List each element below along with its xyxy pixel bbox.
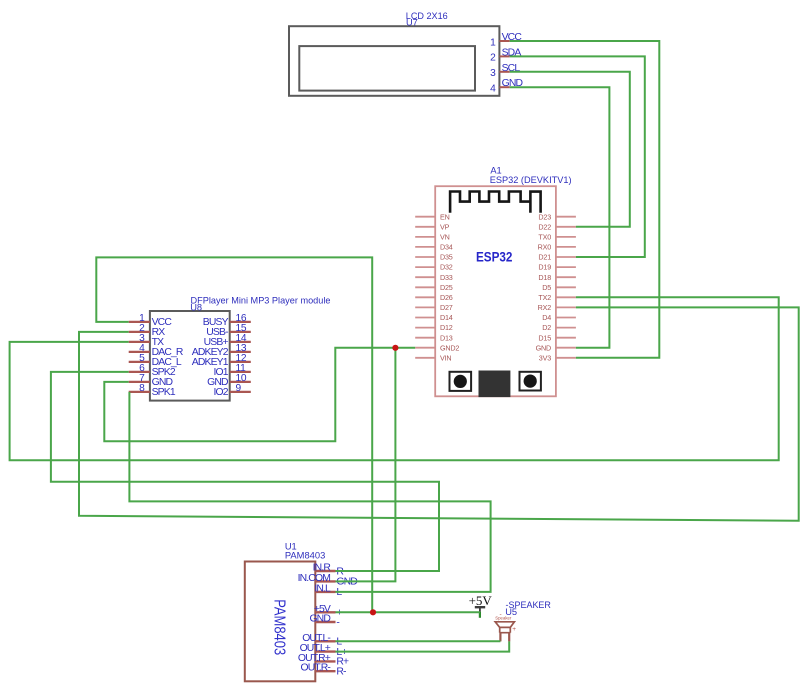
speaker U5 [495,600,551,642]
ESP32 right pin D19 [538,263,575,272]
svg-text:D12: D12 [440,323,453,332]
PAM8403 pin OUT.L- [302,633,344,648]
wire DFPlayer VCC to +5V net [96,257,372,612]
ESP32 left pin D12 [415,323,453,332]
svg-text:U7: U7 [406,18,418,28]
DFPlayer pin 6 SPK2 [129,363,176,378]
svg-text:DFPlayer Mini MP3 Player modul: DFPlayer Mini MP3 Player module [191,295,331,305]
DFPlayer pin 10 GND [207,373,251,388]
svg-text:Speaker: Speaker [495,616,512,621]
ESP32 right pin TX0 [538,233,575,242]
DFPlayer pin 7 GND [129,373,173,388]
DFPlayer pin 2 RX [129,323,166,338]
svg-text:VP: VP [440,222,450,231]
svg-text:PAM8403: PAM8403 [271,599,288,655]
svg-text:GND2: GND2 [440,343,459,352]
wire PAM +5V to +5V symbol [336,611,480,613]
PAM8403 pin IN.COM [298,573,358,588]
ESP32 left pin D34 [415,243,453,252]
svg-text:D21: D21 [538,253,551,262]
svg-text:9: 9 [236,383,242,394]
PAM8403 pin IN.L [314,583,342,598]
ESP32 left pin D26 [415,293,453,302]
svg-text:D26: D26 [440,293,453,302]
wire LCD SCL to ESP32 D22 [510,72,630,227]
svg-text:D5: D5 [542,283,551,292]
wire PAM OUT.L+ to speaker [336,641,510,651]
DFPlayer pin 3 TX [129,333,164,348]
svg-text:-: - [500,611,502,618]
wire LCD VCC to ESP32 3V3 [510,41,660,358]
svg-text:D33: D33 [440,273,453,282]
svg-text:D34: D34 [440,243,453,252]
PAM8403 pin OUT.R+ [298,653,349,668]
PAM8403 pin IN.R [313,563,345,578]
ESP32 right pin D15 [538,333,575,342]
ESP32 module A1 [435,166,571,397]
svg-text:TX0: TX0 [538,233,551,242]
ESP32 antenna [450,192,540,213]
svg-text:D19: D19 [538,263,551,272]
ESP32 USB connector [479,371,511,398]
svg-text:D2: D2 [542,323,551,332]
ESP32 left pin VN [415,233,449,242]
svg-text:D14: D14 [440,313,453,322]
ESP32 left pin D33 [415,273,453,282]
svg-text:D23: D23 [538,212,551,221]
svg-text:D27: D27 [440,303,453,312]
PAM8403 pin GND [309,614,339,629]
svg-text:RX0: RX0 [538,243,552,252]
ESP32 left pin EN [415,212,449,221]
svg-text:TX2: TX2 [538,293,551,302]
ESP32 right pin D4 [542,313,576,322]
svg-text:SPK1: SPK1 [152,387,176,398]
ESP32 left pin D25 [415,283,453,292]
wire ESP32 RX2 to DFPlayer RX [79,307,799,520]
ESP32 left pin D32 [415,263,453,272]
DFPlayer pin 5 DAC_L [129,353,182,368]
wire LCD GND to ESP32 GND [510,87,610,348]
ESP32 left pin VP [415,222,449,231]
svg-text:D32: D32 [440,263,453,272]
ESP32 left pin D27 [415,303,453,312]
ESP32 right pin 3V3 [539,353,576,362]
ESP32 boot button [450,372,472,391]
svg-text:VIN: VIN [440,353,451,362]
svg-text:8: 8 [139,383,145,394]
DFPlayer pin 9 IO2 [213,383,250,398]
wire ESP32 TX2 to DFPlayer TX [10,297,779,460]
ESP32 right pin D22 [538,222,575,231]
ESP32 right pin RX0 [538,243,576,252]
svg-text:D18: D18 [538,273,551,282]
DFPlayer pin 13 ADKEY2 [192,343,251,358]
ESP32 right pin D18 [538,273,575,282]
svg-text:4: 4 [490,84,496,95]
svg-text:VN: VN [440,233,450,242]
ESP32 right pin D5 [542,283,576,292]
junction +5V net [370,609,376,615]
junction GND net [392,345,398,351]
ESP32 right pin D2 [542,323,576,332]
svg-text:R-: R- [336,667,346,678]
svg-text:GND: GND [309,614,330,625]
svg-text:3: 3 [490,68,496,79]
wire DFPlayer GND to ESP32 GND2 [104,348,415,442]
svg-text:EN: EN [440,212,450,221]
svg-text:D13: D13 [440,333,453,342]
svg-text:U8: U8 [190,303,202,313]
svg-text:ESP32: ESP32 [476,248,513,264]
svg-text:2: 2 [490,53,496,64]
power +5V [469,593,493,618]
wire GND branch to PAM IN.COM [336,348,396,582]
ESP32 right pin TX2 [538,293,575,302]
svg-text:IN.R: IN.R [313,563,332,574]
svg-text:RX2: RX2 [538,303,552,312]
svg-text:PAM8403: PAM8403 [285,551,325,561]
DFPlayer pin 14 USB+ [204,333,251,348]
wire PAM OUT.L- to speaker [336,640,501,642]
svg-text:IN.COM: IN.COM [298,573,331,584]
DFPlayer pin 15 USB- [206,323,251,338]
DFPlayer pin 16 BUSY [203,313,251,328]
wire DFPlayer SPK2 to PAM IN.R [51,372,439,571]
svg-text:D25: D25 [440,283,453,292]
svg-text:D22: D22 [538,222,551,231]
ESP32 right pin D21 [538,253,575,262]
svg-text:D4: D4 [542,313,551,322]
svg-text:+: + [512,626,516,633]
DFPlayer module U8 [150,295,331,400]
DFPlayer pin 12 ADKEY1 [192,353,251,368]
ESP32 right pin RX2 [538,303,576,312]
PAM8403 pin OUT.R- [300,663,346,678]
LCD pin 1 VCC [490,32,522,48]
ESP32 left pin VIN [415,353,451,362]
ESP32 en button [520,372,541,391]
ESP32 right pin GND [536,343,576,352]
svg-text:GND: GND [536,343,551,352]
svg-text:+5V: +5V [469,593,493,608]
wire LCD SDA to ESP32 D21 [510,56,645,257]
DFPlayer pin 11 IO1 [213,363,250,378]
PAM8403 pin +5V [314,604,343,619]
LCD U7 [289,11,499,96]
LCD pin 4 GND [490,78,522,94]
svg-text:1: 1 [490,37,496,48]
svg-text:D35: D35 [440,253,453,262]
svg-text:A1: A1 [490,166,501,176]
ESP32 right pin D23 [538,212,575,221]
ESP32 left pin GND2 [415,343,459,352]
DFPlayer pin 1 VCC [129,313,173,328]
svg-text:IN.L: IN.L [314,583,331,594]
ESP32 left pin D14 [415,313,453,322]
PAM8403 pin OUT.L+ [300,643,348,658]
ESP32 left pin D13 [415,333,453,342]
svg-text:ESP32 (DEVKITV1): ESP32 (DEVKITV1) [490,175,572,185]
LCD pin 2 SDA [490,47,521,63]
svg-text:OUT.R-: OUT.R- [300,663,330,674]
svg-text:D15: D15 [538,333,551,342]
DFPlayer pin 4 DAC_R [129,343,184,358]
PAM8403 amplifier U1 [245,542,325,682]
LCD pin 3 SCL [490,63,520,79]
svg-text:IO2: IO2 [213,387,228,398]
svg-text:3V3: 3V3 [539,353,551,362]
DFPlayer pin 8 SPK1 [129,383,176,398]
wire DFPlayer SPK1 to PAM IN.L [129,392,490,592]
ESP32 left pin D35 [415,253,453,262]
svg-text:-: - [336,617,339,628]
